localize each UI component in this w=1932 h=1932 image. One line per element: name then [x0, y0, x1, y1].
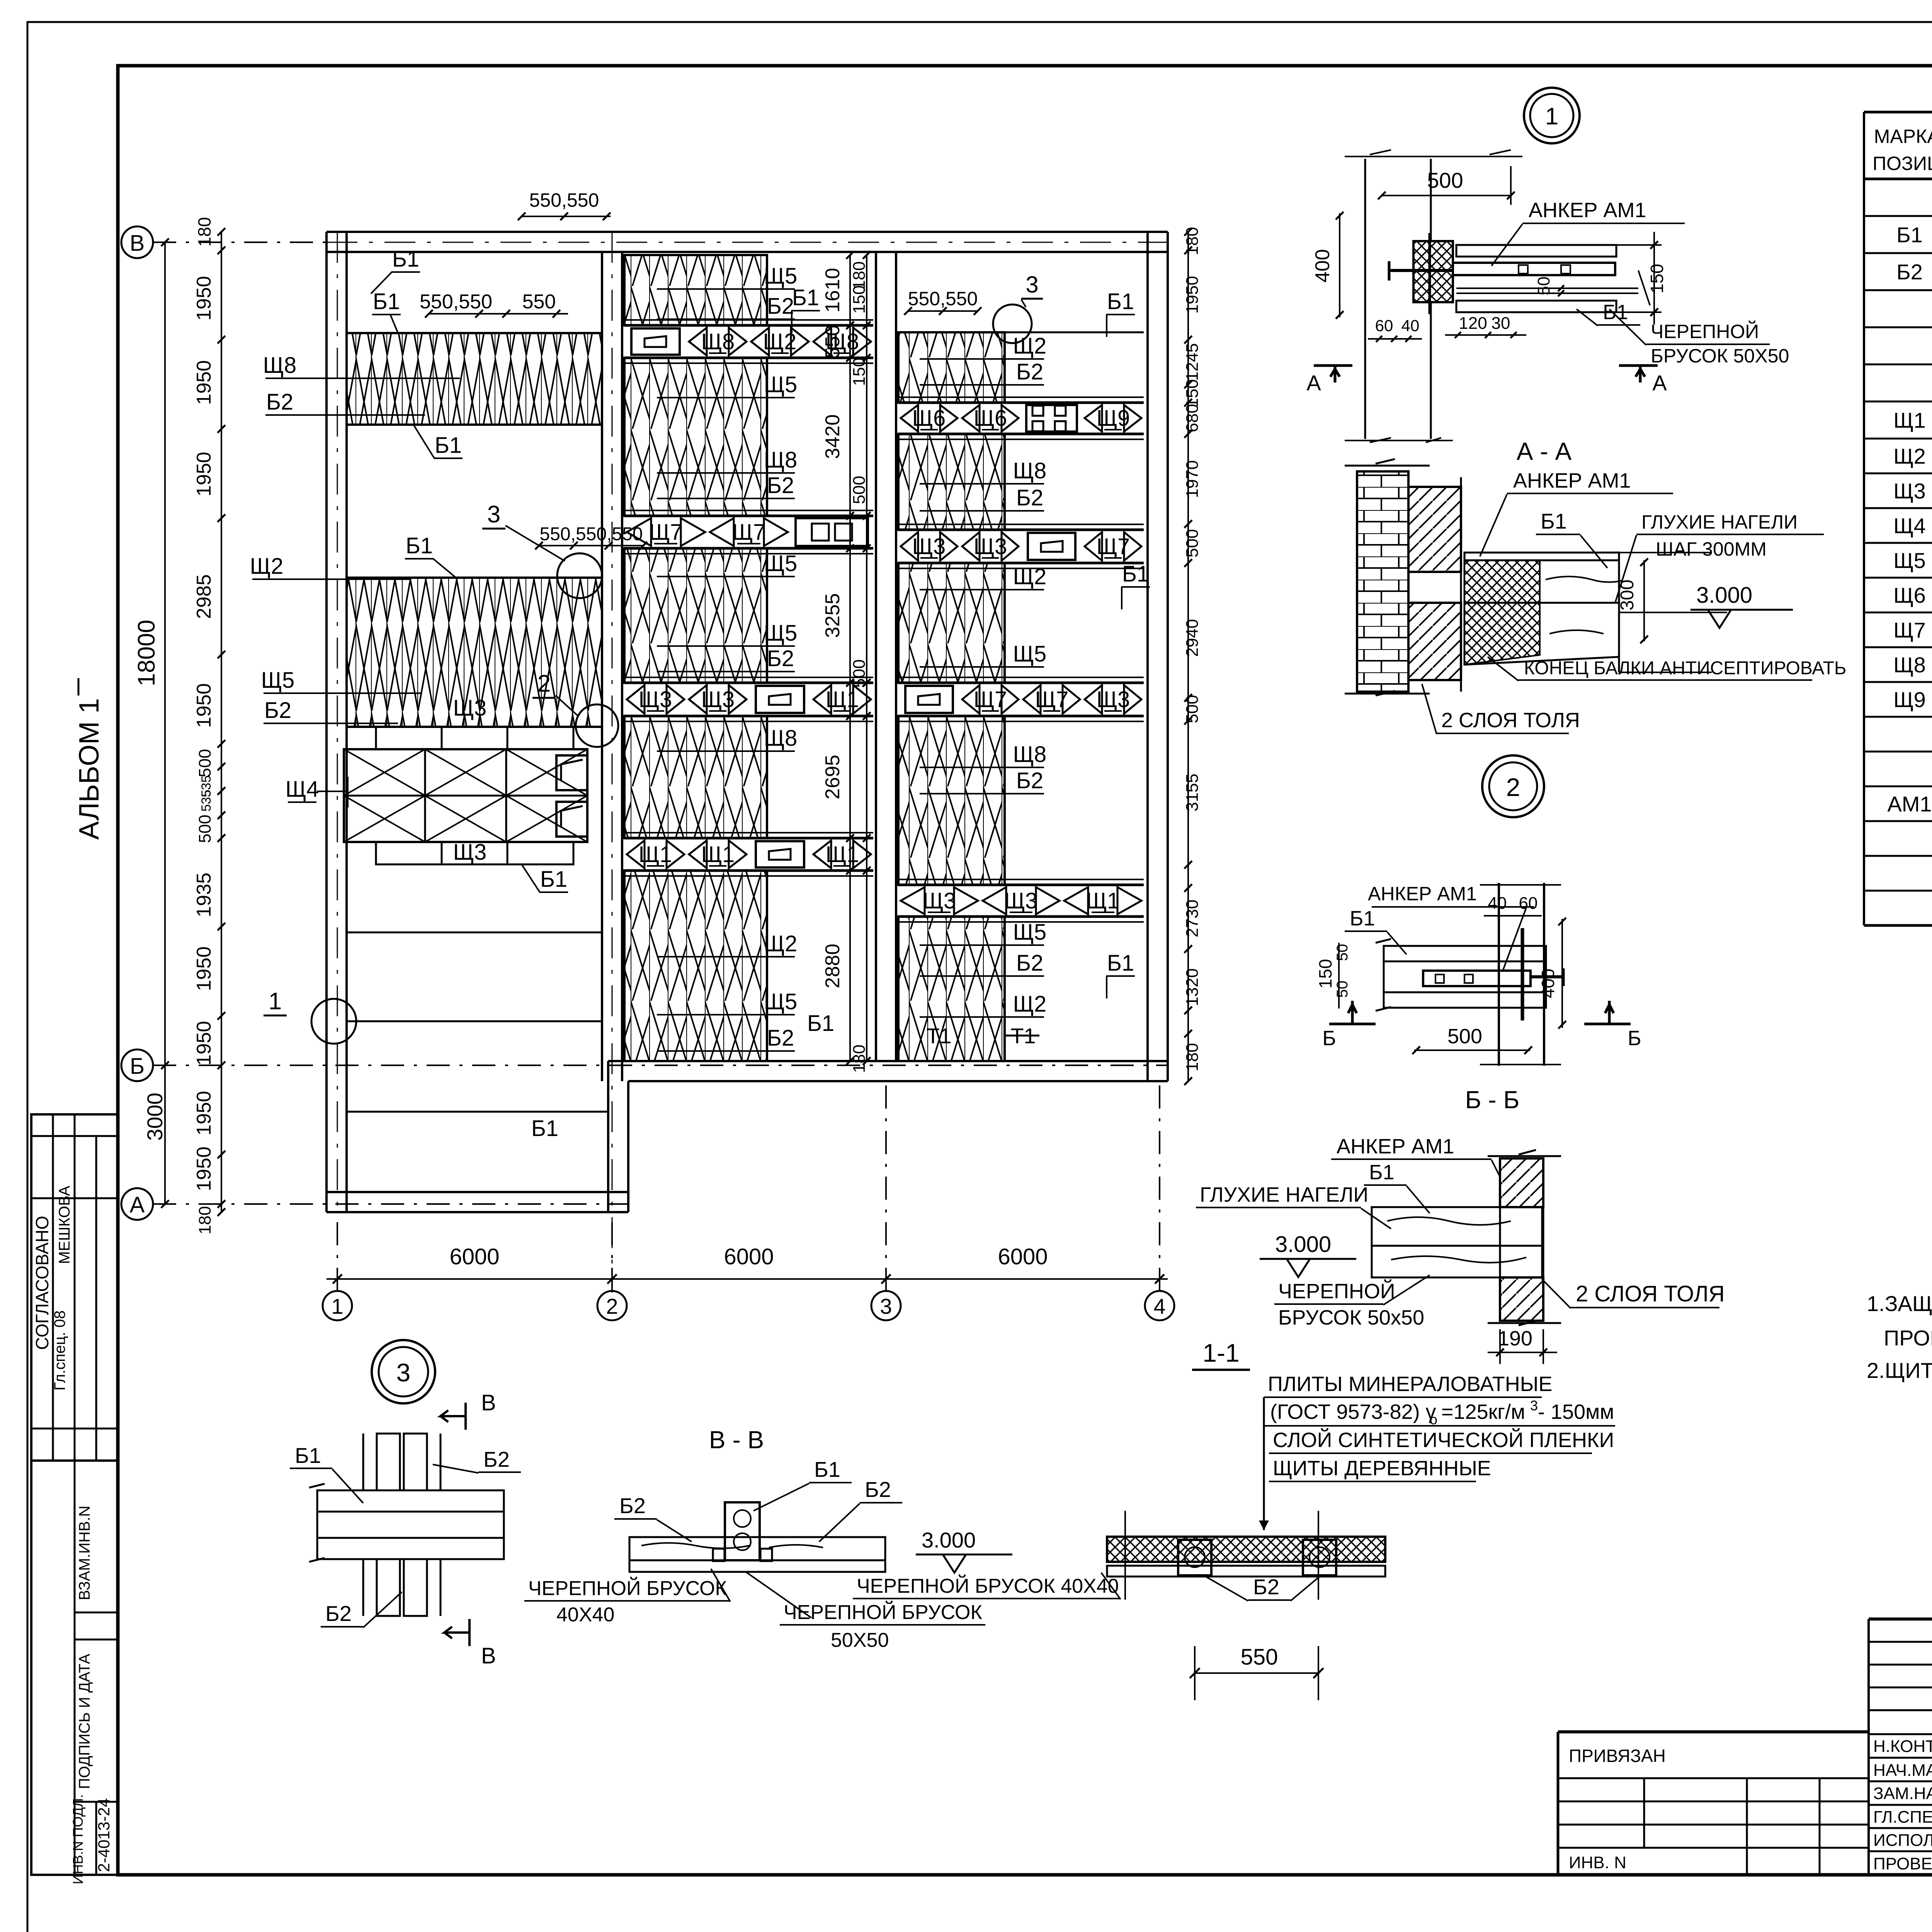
svg-text:А: А	[1652, 371, 1667, 395]
svg-text:ЗАМ.НАЧ.: ЗАМ.НАЧ.	[1873, 1784, 1932, 1803]
svg-text:400: 400	[1311, 249, 1334, 283]
svg-text:180: 180	[1183, 227, 1202, 255]
svg-text:СЛОЙ СИНТЕТИЧЕСКОЙ ПЛЕНКИ: СЛОЙ СИНТЕТИЧЕСКОЙ ПЛЕНКИ	[1273, 1428, 1614, 1452]
svg-text:150: 150	[1183, 379, 1202, 407]
svg-text:Щ3: Щ3	[974, 534, 1007, 559]
svg-text:Б2: Б2	[325, 1601, 352, 1626]
svg-text:6000: 6000	[449, 1244, 499, 1269]
left margin stamp tables	[31, 1114, 118, 1875]
svg-text:А - А: А - А	[1517, 437, 1572, 465]
svg-text:400: 400	[1538, 969, 1558, 998]
node 1 circle	[1524, 88, 1580, 143]
svg-text:550,550,550: 550,550,550	[540, 524, 643, 544]
svg-text:40: 40	[1401, 316, 1420, 335]
svg-text:Щ7: Щ7	[649, 520, 683, 545]
svg-text:18000: 18000	[133, 620, 160, 686]
svg-text:180: 180	[194, 217, 214, 247]
svg-text:Щ3: Щ3	[923, 888, 956, 913]
svg-text:Б2: Б2	[767, 294, 794, 319]
axis circles and lines	[121, 226, 153, 258]
svg-text:ГЛ.СПЕЦ.: ГЛ.СПЕЦ.	[1873, 1808, 1932, 1827]
svg-text:Щ8: Щ8	[764, 726, 798, 751]
svg-text:БРУСОК 50х50: БРУСОК 50х50	[1278, 1306, 1424, 1329]
svg-text:Б - Б: Б - Б	[1465, 1086, 1520, 1114]
svg-text:- 150мм: - 150мм	[1538, 1400, 1614, 1423]
title block left tables	[1558, 1730, 1869, 1733]
svg-text:ПРОИЗВОДИТЬ В СООТВЕТСТВИИ: ПРОИЗВОДИТЬ В СООТВЕТСТВИИ С ТРЕБОВАНИЯМ…	[1884, 1326, 1932, 1350]
svg-text:ИНВ. N: ИНВ. N	[1569, 1853, 1626, 1872]
svg-text:В: В	[481, 1390, 496, 1415]
svg-text:Б1: Б1	[1350, 907, 1375, 930]
svg-text:АНКЕР АМ1: АНКЕР АМ1	[1529, 199, 1646, 222]
svg-text:Щ3: Щ3	[1097, 687, 1130, 712]
svg-text:Б1: Б1	[1122, 561, 1149, 587]
svg-text:2.ЩИТЫ ПРИ НЕОБХОДИМОСТИ ОБ: 2.ЩИТЫ ПРИ НЕОБХОДИМОСТИ ОБРЕЗАТЬ ПО МЕС…	[1867, 1358, 1932, 1383]
svg-text:500: 500	[850, 476, 869, 504]
svg-text:3420: 3420	[821, 414, 844, 459]
svg-text:ПОЗИЦ.: ПОЗИЦ.	[1872, 153, 1932, 174]
svg-text:Щ3: Щ3	[453, 696, 487, 721]
bay 1-2 panels	[347, 333, 602, 425]
svg-text:АНКЕР АМ1: АНКЕР АМ1	[1513, 469, 1631, 492]
svg-text:1-1: 1-1	[1202, 1338, 1239, 1367]
left dimension chains	[164, 242, 166, 1204]
svg-text:680: 680	[1183, 404, 1202, 432]
svg-text:180: 180	[850, 1044, 869, 1073]
svg-text:2880: 2880	[821, 944, 844, 988]
svg-text:Б2: Б2	[1016, 951, 1043, 976]
svg-text:Щ1: Щ1	[701, 842, 735, 867]
svg-text:550: 550	[821, 325, 844, 359]
svg-text:Б2: Б2	[266, 389, 293, 415]
svg-text:Щ7: Щ7	[1035, 687, 1069, 712]
svg-text:500: 500	[850, 659, 869, 687]
svg-text:Щ5: Щ5	[764, 551, 798, 576]
svg-text:3: 3	[880, 1294, 892, 1318]
svg-text:Щ5: Щ5	[764, 621, 798, 646]
svg-text:500: 500	[1183, 695, 1202, 723]
svg-text:Щ5: Щ5	[261, 668, 295, 693]
svg-text:3: 3	[487, 501, 500, 528]
svg-text:Щ5: Щ5	[1893, 548, 1926, 573]
svg-text:120: 120	[1459, 314, 1487, 333]
svg-text:Щ3: Щ3	[912, 534, 946, 559]
svg-text:ПРИВЯЗАН: ПРИВЯЗАН	[1569, 1746, 1666, 1766]
svg-text:2: 2	[1506, 773, 1520, 801]
svg-text:4: 4	[1153, 1294, 1165, 1318]
svg-text:3: 3	[1530, 1398, 1538, 1413]
svg-text:Б2: Б2	[1896, 260, 1923, 284]
svg-text:60: 60	[1519, 894, 1538, 913]
svg-text:Щ4: Щ4	[1893, 514, 1926, 538]
svg-text:1: 1	[269, 988, 282, 1015]
svg-text:ПРОВЕР.: ПРОВЕР.	[1873, 1854, 1932, 1873]
svg-text:Б1: Б1	[531, 1116, 558, 1141]
svg-text:30: 30	[1492, 314, 1510, 333]
svg-text:1245: 1245	[1183, 343, 1202, 381]
svg-text:Щ1: Щ1	[826, 842, 859, 867]
svg-text:СОГЛАСОВАНО: СОГЛАСОВАНО	[32, 1216, 52, 1350]
svg-text:Щ5: Щ5	[764, 989, 798, 1014]
svg-text:40Х40: 40Х40	[556, 1604, 614, 1626]
svg-text:2: 2	[537, 670, 551, 697]
svg-text:Щ8: Щ8	[1013, 458, 1047, 483]
svg-text:190: 190	[1498, 1327, 1532, 1350]
svg-text:Щ1: Щ1	[1086, 888, 1120, 913]
svg-text:6000: 6000	[724, 1244, 774, 1269]
svg-text:Щ4: Щ4	[286, 777, 319, 802]
detail A-A	[1364, 159, 1366, 439]
svg-text:2940: 2940	[1183, 619, 1202, 657]
svg-text:Б1: Б1	[807, 1011, 834, 1036]
svg-text:50: 50	[1334, 981, 1351, 998]
svg-text:ВЗАМ.ИНВ.N: ВЗАМ.ИНВ.N	[76, 1506, 93, 1600]
svg-text:о: о	[1430, 1412, 1437, 1427]
svg-text:500: 500	[196, 815, 214, 843]
svg-text:Щ5: Щ5	[1013, 641, 1047, 667]
svg-text:1950: 1950	[193, 946, 215, 991]
svg-text:50: 50	[1534, 277, 1553, 296]
svg-text:500: 500	[196, 749, 214, 777]
svg-text:ГЛУХИЕ НАГЕЛИ: ГЛУХИЕ НАГЕЛИ	[1200, 1183, 1368, 1206]
svg-text:Щ6: Щ6	[912, 406, 946, 431]
svg-text:1950: 1950	[193, 452, 215, 497]
svg-text:1: 1	[331, 1294, 343, 1318]
svg-text:ЧЕРЕПНОЙ: ЧЕРЕПНОЙ	[1651, 320, 1759, 342]
svg-text:3: 3	[396, 1358, 411, 1387]
svg-text:Щ1: Щ1	[1893, 408, 1926, 432]
svg-text:Б2: Б2	[1016, 485, 1043, 510]
svg-text:Б1: Б1	[1541, 509, 1567, 533]
svg-text:ЧЕРЕПНОЙ БРУСОК 40Х40: ЧЕРЕПНОЙ БРУСОК 40Х40	[857, 1575, 1119, 1597]
svg-text:Б1: Б1	[1603, 301, 1628, 324]
svg-text:550,550: 550,550	[420, 291, 492, 313]
svg-text:300: 300	[1617, 580, 1638, 611]
bay 3-4 panels	[898, 332, 1005, 403]
svg-text:Щ8: Щ8	[701, 329, 735, 354]
svg-text:БРУСОК 50Х50: БРУСОК 50Х50	[1651, 345, 1789, 367]
svg-text:АНКЕР АМ1: АНКЕР АМ1	[1368, 883, 1477, 905]
svg-text:В: В	[130, 231, 145, 256]
right dimension chains (inside bay 2-3)	[849, 255, 851, 1061]
svg-text:Щ1: Щ1	[639, 842, 672, 867]
svg-text:1: 1	[1545, 103, 1558, 130]
svg-text:2985: 2985	[193, 574, 215, 619]
svg-text:2 СЛОЯ ТОЛЯ: 2 СЛОЯ ТОЛЯ	[1441, 709, 1580, 732]
svg-text:1950: 1950	[193, 276, 215, 321]
svg-text:Щ2: Щ2	[250, 554, 284, 579]
svg-text:ИСПОЛН.: ИСПОЛН.	[1873, 1831, 1932, 1850]
svg-text:Б1: Б1	[1369, 1161, 1394, 1184]
svg-text:3.000: 3.000	[1275, 1232, 1331, 1257]
svg-text:КОНЕЦ БАЛКИ АНТИСЕПТИРОВАТЬ: КОНЕЦ БАЛКИ АНТИСЕПТИРОВАТЬ	[1524, 658, 1846, 679]
svg-text:А: А	[130, 1192, 145, 1218]
svg-text:Щ7: Щ7	[1097, 534, 1130, 559]
svg-text:ИНВ.N ПОДЛ.: ИНВ.N ПОДЛ.	[70, 1794, 86, 1884]
svg-text:535: 535	[199, 790, 214, 812]
svg-text:ШАГ 300ММ: ШАГ 300ММ	[1656, 538, 1767, 560]
svg-text:ГЛУХИЕ НАГЕЛИ: ГЛУХИЕ НАГЕЛИ	[1641, 511, 1798, 533]
svg-text:Б1: Б1	[1107, 289, 1134, 314]
svg-text:150: 150	[1647, 264, 1667, 294]
svg-text:2 СЛОЯ ТОЛЯ: 2 СЛОЯ ТОЛЯ	[1576, 1281, 1725, 1306]
svg-text:1970: 1970	[1183, 460, 1202, 498]
svg-text:Б: Б	[1628, 1027, 1641, 1050]
svg-text:Щ6: Щ6	[1893, 583, 1926, 607]
svg-text:2730: 2730	[1183, 900, 1202, 937]
bottom dimension 6000 x3	[327, 1278, 1168, 1280]
svg-text:Б1: Б1	[406, 533, 433, 558]
svg-text:Щ7: Щ7	[974, 687, 1007, 712]
svg-text:Щ9: Щ9	[1893, 687, 1926, 712]
svg-text:180: 180	[1183, 1043, 1202, 1071]
svg-text:3.000: 3.000	[1696, 583, 1752, 608]
svg-text:Б2: Б2	[767, 646, 794, 671]
svg-text:Щ3: Щ3	[1004, 888, 1038, 913]
svg-text:550,550: 550,550	[908, 288, 978, 310]
svg-text:500: 500	[1427, 168, 1463, 192]
detail B-B	[1384, 946, 1546, 961]
svg-text:А: А	[1306, 371, 1321, 395]
svg-text:2695: 2695	[821, 755, 844, 799]
svg-text:Б2: Б2	[483, 1447, 510, 1471]
svg-text:Щ3: Щ3	[453, 840, 487, 865]
svg-text:Б2: Б2	[1253, 1575, 1279, 1599]
svg-text:Щ5: Щ5	[1013, 920, 1047, 945]
svg-text:Щ5: Щ5	[764, 372, 798, 397]
node 2 circle	[1482, 755, 1544, 817]
node 1 wall bearing detail	[1357, 471, 1408, 692]
svg-text:Б1: Б1	[540, 867, 567, 892]
svg-text:Б: Б	[130, 1054, 145, 1079]
svg-text:Щ8: Щ8	[764, 447, 798, 473]
svg-text:3.000: 3.000	[922, 1528, 976, 1552]
svg-text:ПЛИТЫ МИНЕРАЛОВАТНЫЕ: ПЛИТЫ МИНЕРАЛОВАТНЫЕ	[1268, 1372, 1553, 1396]
svg-text:Б2: Б2	[767, 473, 794, 498]
svg-text:3: 3	[1026, 272, 1038, 298]
svg-text:Щ7: Щ7	[732, 520, 766, 545]
svg-text:АМ1: АМ1	[1887, 792, 1932, 816]
svg-text:НАЧ.МАСТ.: НАЧ.МАСТ.	[1873, 1761, 1932, 1780]
svg-text:Б1: Б1	[373, 289, 400, 314]
svg-text:1950: 1950	[193, 683, 215, 728]
svg-text:Гл.спец. 08: Гл.спец. 08	[51, 1310, 68, 1390]
svg-text:(ГОСТ 9573-82) γ: (ГОСТ 9573-82) γ	[1270, 1400, 1436, 1423]
svg-text:В: В	[481, 1643, 496, 1668]
svg-text:Б2: Б2	[865, 1477, 891, 1502]
svg-text:Б2: Б2	[619, 1493, 646, 1518]
svg-text:Т1: Т1	[926, 1024, 951, 1048]
svg-text:2: 2	[606, 1294, 618, 1318]
svg-text:1950: 1950	[193, 360, 215, 405]
svg-text:1950: 1950	[193, 1091, 215, 1136]
svg-text:ЧЕРЕПНОЙ БРУСОК: ЧЕРЕПНОЙ БРУСОК	[528, 1577, 727, 1600]
svg-text:Щ7: Щ7	[1893, 618, 1926, 642]
svg-text:1610: 1610	[821, 268, 844, 313]
svg-text:Щ2: Щ2	[764, 931, 798, 956]
svg-text:Щ8: Щ8	[1013, 742, 1047, 767]
svg-text:Щ2: Щ2	[1893, 444, 1926, 468]
svg-text:Б2: Б2	[767, 1026, 794, 1051]
svg-text:550: 550	[522, 291, 556, 313]
svg-text:3255: 3255	[821, 593, 844, 638]
svg-text:АЛЬБОМ 1: АЛЬБОМ 1	[74, 698, 105, 840]
svg-text:Б1: Б1	[1107, 951, 1134, 976]
svg-text:1320: 1320	[1183, 968, 1202, 1006]
svg-text:Б: Б	[1322, 1027, 1336, 1050]
svg-text:Щ3: Щ3	[701, 687, 735, 712]
svg-text:1950: 1950	[1183, 276, 1202, 314]
svg-text:Щ3: Щ3	[1893, 479, 1926, 503]
svg-text:ПОДПИСЬ И ДАТА: ПОДПИСЬ И ДАТА	[76, 1654, 93, 1789]
svg-text:50: 50	[1334, 944, 1351, 961]
node 3 plan detail	[317, 1490, 504, 1512]
svg-text:В - В: В - В	[709, 1426, 764, 1454]
svg-text:Б2: Б2	[1016, 768, 1043, 793]
bay 2-3 panels	[624, 255, 767, 325]
svg-text:Б2: Б2	[1016, 359, 1043, 384]
svg-text:6000: 6000	[998, 1244, 1048, 1269]
svg-text:1.ЗАЩИТУ ДРЕВЕСИНЫ ОТ ГНИЕН: 1.ЗАЩИТУ ДРЕВЕСИНЫ ОТ ГНИЕНИЯ И ОГНЕЗАЩИ…	[1867, 1291, 1932, 1316]
svg-text:500: 500	[1447, 1025, 1482, 1048]
svg-text:150: 150	[850, 285, 869, 313]
svg-text:60: 60	[1375, 316, 1393, 335]
svg-text:Щ8: Щ8	[263, 353, 297, 378]
svg-text:2-4013-24: 2-4013-24	[95, 1798, 113, 1872]
svg-text:ЩИТЫ ДЕРЕВЯННЫЕ: ЩИТЫ ДЕРЕВЯННЫЕ	[1273, 1457, 1491, 1480]
svg-text:Б1: Б1	[295, 1443, 321, 1468]
svg-text:ЧЕРЕПНОЙ: ЧЕРЕПНОЙ	[1278, 1279, 1395, 1303]
svg-text:Щ3: Щ3	[639, 687, 672, 712]
svg-text:МАРКА,: МАРКА,	[1874, 126, 1932, 147]
svg-text:550,550: 550,550	[529, 189, 599, 211]
svg-text:1950: 1950	[193, 1146, 215, 1191]
node 3 circle	[372, 1340, 435, 1403]
specification table	[1863, 112, 1865, 925]
svg-text:МЕШКОВА: МЕШКОВА	[56, 1185, 73, 1264]
svg-text:Б1: Б1	[392, 247, 419, 272]
svg-text:40: 40	[1488, 894, 1507, 913]
svg-text:Щ2: Щ2	[1013, 564, 1047, 589]
svg-text:Б1: Б1	[792, 285, 819, 310]
svg-text:Щ2: Щ2	[1013, 333, 1047, 359]
svg-text:1935: 1935	[193, 872, 215, 917]
svg-text:500: 500	[1183, 529, 1202, 557]
far right dimension chain	[1187, 232, 1189, 1081]
svg-text:Щ1: Щ1	[826, 687, 859, 712]
svg-text:Щ9: Щ9	[1097, 406, 1130, 431]
svg-text:Щ8: Щ8	[1893, 653, 1926, 677]
svg-text:Б2: Б2	[264, 698, 291, 723]
svg-text:50Х50: 50Х50	[831, 1629, 889, 1651]
svg-text:150: 150	[1315, 959, 1335, 989]
svg-text:Б1: Б1	[814, 1457, 840, 1481]
svg-text:150: 150	[850, 357, 869, 386]
svg-text:ЧЕРЕПНОЙ БРУСОК: ЧЕРЕПНОЙ БРУСОК	[784, 1601, 982, 1624]
svg-text:3155: 3155	[1183, 774, 1202, 811]
svg-text:1950: 1950	[193, 1021, 215, 1066]
svg-text:Б1: Б1	[435, 433, 462, 458]
svg-text:Н.КОНТР.: Н.КОНТР.	[1873, 1737, 1932, 1756]
svg-text:Б1: Б1	[1896, 223, 1923, 247]
svg-text:3000: 3000	[143, 1093, 167, 1141]
building walls	[327, 231, 1168, 233]
svg-text:180: 180	[196, 1206, 214, 1234]
svg-text:Щ6: Щ6	[974, 406, 1007, 431]
svg-text:550: 550	[1241, 1645, 1278, 1670]
svg-text:АНКЕР АМ1: АНКЕР АМ1	[1337, 1135, 1454, 1158]
svg-text:=125кг/м: =125кг/м	[1441, 1400, 1525, 1423]
signature grid	[1869, 1617, 1932, 1621]
svg-text:Щ2: Щ2	[1013, 992, 1047, 1017]
